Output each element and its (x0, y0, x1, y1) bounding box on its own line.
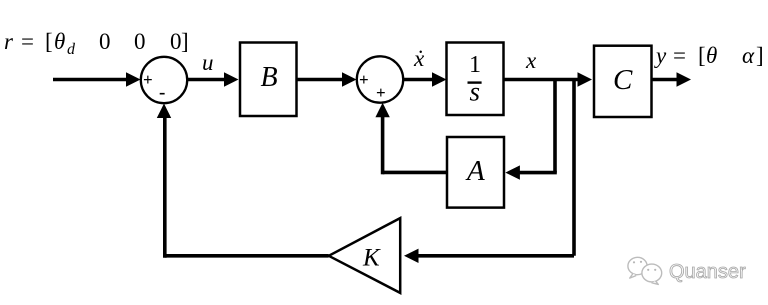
svg-text:1: 1 (469, 52, 481, 78)
svg-text:0: 0 (134, 29, 146, 54)
gain K triangle (329, 218, 401, 293)
svg-text:ẋ: ẋ (413, 46, 425, 71)
wire tap to A feedback (505, 80, 556, 180)
label r = [theta_d 0 0 0] (4, 29, 189, 58)
wire output arrow from C (652, 72, 692, 86)
wire tap to K feedback (404, 80, 574, 264)
block integrator 1/s (447, 43, 504, 116)
svg-text:θ: θ (54, 29, 65, 54)
svg-text:0: 0 (99, 29, 111, 54)
svg-text:+: + (143, 70, 153, 89)
wire input arrow into summer S1 (53, 72, 141, 86)
svg-text:d: d (67, 41, 76, 58)
svg-text:Quanser: Quanser (669, 261, 746, 283)
block B (240, 43, 297, 117)
svg-text:=: = (21, 29, 34, 54)
summing junction S1 (141, 57, 187, 103)
svg-text:s: s (470, 77, 481, 107)
svg-text:r: r (4, 29, 14, 54)
wire S2 to integrator (404, 72, 447, 86)
summing junction S2 (357, 56, 403, 102)
svg-text:u: u (202, 50, 214, 75)
wire A output to summer S2 (375, 103, 447, 175)
svg-text:[: [ (698, 43, 706, 68)
wire K output to summer S1 (157, 104, 329, 258)
svg-text:+: + (376, 83, 386, 102)
svg-text:[: [ (45, 29, 53, 54)
svg-text:α: α (742, 43, 755, 68)
svg-text:+: + (359, 70, 369, 89)
svg-text:K: K (362, 245, 381, 272)
wire S1 to B (188, 72, 239, 86)
svg-text:θ: θ (706, 43, 717, 68)
svg-text:y: y (654, 43, 667, 68)
wire integrator to C with taps (504, 72, 593, 86)
svg-text:x: x (525, 48, 537, 73)
wire B to summer S2 (297, 72, 357, 86)
svg-text:0: 0 (170, 29, 182, 54)
svg-text:A: A (465, 155, 485, 187)
block A (447, 137, 504, 208)
block C (594, 46, 652, 117)
svg-text:]: ] (181, 29, 189, 54)
svg-text:C: C (613, 64, 633, 96)
svg-text:-: - (159, 82, 165, 103)
svg-text:B: B (261, 62, 278, 93)
svg-text:=: = (673, 43, 686, 68)
svg-text:]: ] (756, 43, 764, 68)
watermark wechat icon (628, 257, 662, 284)
label y = [theta alpha] (654, 43, 764, 68)
